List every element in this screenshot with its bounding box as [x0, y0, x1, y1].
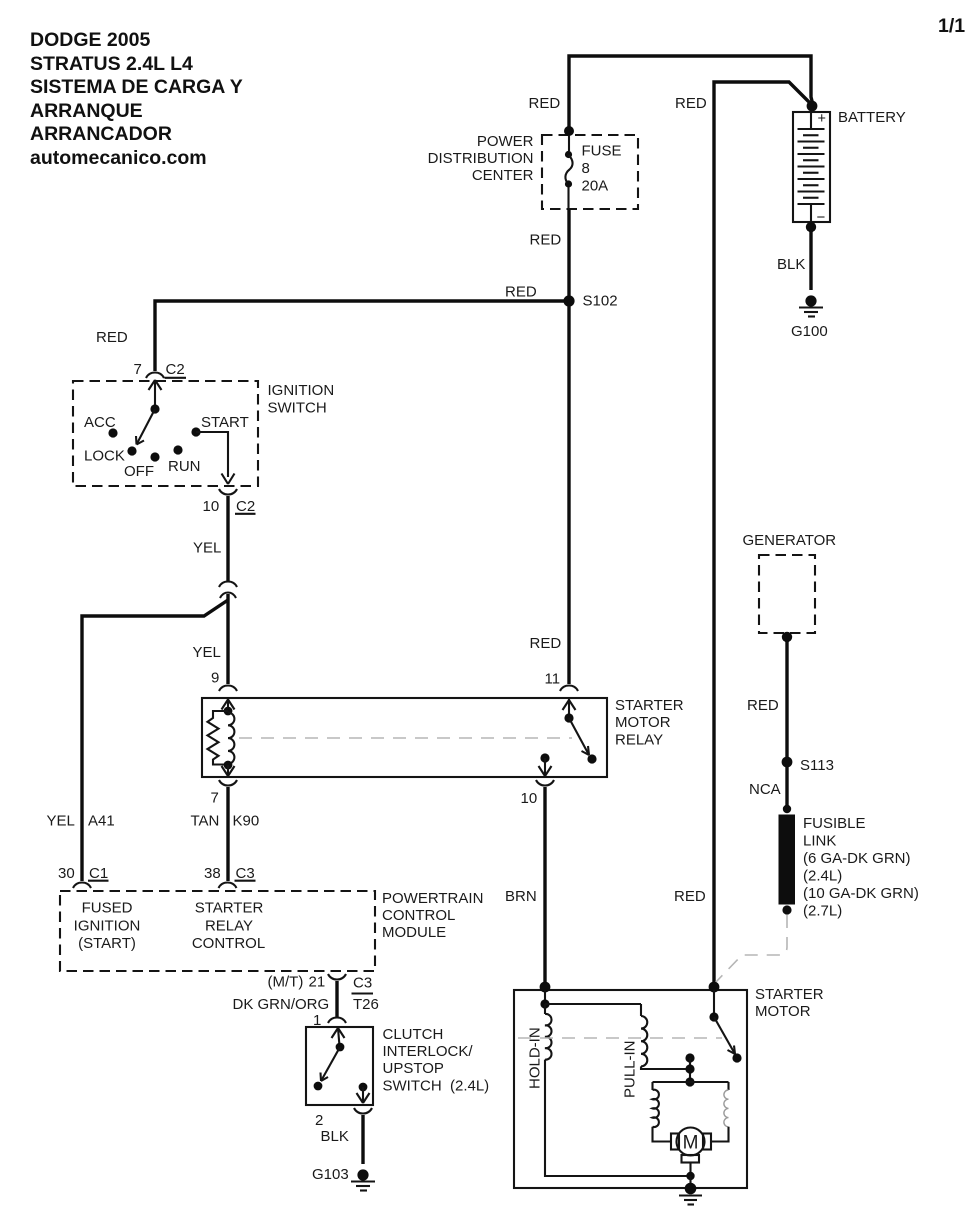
svg-text:BLK: BLK: [777, 256, 805, 273]
wire hold-in return: [545, 1060, 691, 1176]
node BRN at starter box: [540, 982, 551, 993]
wire RED S102 to ignition switch: [155, 301, 569, 371]
ground G103: [351, 1169, 375, 1190]
svg-text:RED: RED: [505, 284, 537, 301]
wire DK GRN/ORG PCM to clutch switch: [335, 981, 338, 1017]
solenoid mechanical dashed link: [518, 1037, 722, 1039]
node generator output: [782, 632, 792, 642]
svg-text:CONTROL: CONTROL: [382, 907, 455, 924]
clutch switch internals: [314, 1028, 370, 1103]
label FUSE 8 20A: [582, 143, 622, 195]
svg-text:(M/T): (M/T): [268, 974, 304, 991]
svg-text:TAN: TAN: [191, 813, 220, 830]
inline connector (two arcs): [219, 582, 237, 599]
svg-text:INTERLOCK/: INTERLOCK/: [383, 1043, 474, 1060]
svg-text:C3: C3: [353, 975, 372, 992]
connector PCM pin 30 (female arc): [73, 883, 91, 889]
svg-text:C2: C2: [166, 361, 185, 378]
wire: top RED feed from battery to fuse: [569, 56, 813, 132]
powertrain control module box: [60, 891, 375, 971]
svg-text:FUSIBLE: FUSIBLE: [803, 815, 866, 832]
svg-text:38: 38: [204, 865, 221, 882]
svg-text:YEL: YEL: [47, 813, 75, 830]
wire: RED battery positive to starter motor: [714, 82, 813, 988]
label IGNITION SWITCH: [268, 382, 335, 417]
label STARTER MOTOR RELAY: [615, 697, 684, 749]
svg-text:STARTER: STARTER: [615, 697, 684, 714]
svg-text:(2.7L): (2.7L): [803, 903, 842, 920]
wire RED generator to S113: [785, 640, 788, 762]
connector PCM pin 38 (female arc): [219, 883, 237, 889]
svg-text:CENTER: CENTER: [472, 167, 534, 184]
svg-text:RED: RED: [674, 888, 706, 905]
svg-text:STRATUS 2.4L L4: STRATUS 2.4L L4: [30, 53, 193, 75]
label CLUTCH INTERLOCK/ UPSTOP SWITCH (2.4L): [383, 1026, 490, 1095]
svg-text:C3: C3: [236, 865, 255, 882]
relay mechanical dashed link: [239, 737, 572, 739]
svg-text:(10 GA-DK GRN): (10 GA-DK GRN): [803, 885, 919, 902]
label STARTER RELAY CONTROL: [192, 900, 265, 953]
connector clutch pin 1 (female arc): [328, 1018, 346, 1024]
wire YEL branch to PCM pin 30: [82, 600, 228, 881]
svg-text:20A: 20A: [582, 178, 609, 195]
fuse F8 20A: [564, 126, 574, 209]
node battery positive: [807, 101, 818, 112]
svg-text:ARRANQUE: ARRANQUE: [30, 100, 143, 122]
connector C2 pin 10 (female arc): [219, 489, 237, 495]
svg-text:2: 2: [315, 1112, 323, 1129]
svg-text:9: 9: [211, 670, 219, 687]
svg-text:RUN: RUN: [168, 458, 201, 475]
motor armature loop: [653, 1082, 729, 1142]
label pin 38 C3: [204, 865, 256, 882]
label pin 7 C2: [134, 361, 187, 378]
connector clutch pin 2 (female arc): [354, 1108, 372, 1114]
connector relay pin 10 (female arc): [536, 780, 554, 786]
svg-text:+: +: [818, 111, 826, 127]
label POWERTRAIN CONTROL MODULE: [382, 890, 483, 941]
node S113: [782, 757, 793, 768]
svg-text:DK GRN/ORG: DK GRN/ORG: [233, 996, 330, 1013]
ignition switch box: [73, 381, 258, 486]
label pin 10 C2: [203, 498, 256, 515]
wire BLK clutch to ground: [361, 1115, 364, 1164]
svg-text:SWITCH: SWITCH: [268, 400, 327, 417]
svg-text:C2: C2: [236, 498, 255, 515]
wire BRN relay pin 10 to starter motor: [543, 787, 546, 988]
relay coil (resistor + inductor): [208, 699, 235, 776]
wire YEL splice down to relay pin 9: [226, 594, 229, 684]
relay switch: [539, 699, 597, 776]
ground G100: [791, 295, 828, 340]
motor M: [671, 1128, 711, 1177]
svg-text:UPSTOP: UPSTOP: [383, 1060, 444, 1077]
svg-text:HOLD-IN: HOLD-IN: [527, 1027, 544, 1089]
svg-text:SWITCH (2.4L): SWITCH (2.4L): [383, 1078, 490, 1095]
title block: [30, 29, 243, 169]
svg-text:7: 7: [211, 790, 219, 807]
svg-text:LOCK: LOCK: [84, 448, 125, 465]
connector relay pin 7 (female arc): [219, 780, 237, 786]
wire RED fuse to S102: [567, 209, 570, 301]
solenoid contact node stack: [685, 1053, 694, 1086]
ground starter case: [679, 1183, 702, 1205]
svg-text:8: 8: [582, 160, 590, 177]
node fusible link bottom: [782, 905, 791, 914]
solenoid switch: [709, 990, 741, 1063]
svg-text:STARTER: STARTER: [195, 900, 264, 917]
svg-text:SISTEMA DE CARGA Y: SISTEMA DE CARGA Y: [30, 76, 243, 98]
hold-in coil: [545, 1014, 552, 1060]
svg-text:START: START: [201, 414, 249, 431]
node S102: [563, 295, 574, 306]
svg-text:RED: RED: [530, 232, 562, 249]
node battery negative: [806, 222, 816, 232]
svg-text:MODULE: MODULE: [382, 924, 446, 941]
label (M/T) 21 C3 T26: [233, 974, 379, 1014]
label FUSIBLE LINK values: [803, 815, 919, 920]
svg-text:POWER: POWER: [477, 133, 534, 150]
ignition switch internals: [84, 380, 249, 484]
svg-text:(START): (START): [78, 935, 136, 952]
label YEL A41: [47, 813, 115, 830]
label FUSED IGNITION (START): [74, 900, 141, 953]
svg-text:11: 11: [545, 671, 561, 688]
svg-text:BLK: BLK: [321, 1128, 349, 1145]
node motor return: [686, 1172, 694, 1180]
connector PCM pin 21 (female arc below box): [328, 974, 346, 980]
svg-text:IGNITION: IGNITION: [268, 382, 335, 399]
label POWER DISTRIBUTION CENTER: [428, 133, 534, 184]
svg-text:OFF: OFF: [124, 463, 154, 480]
svg-text:YEL: YEL: [193, 540, 221, 557]
generator box: [759, 555, 815, 633]
svg-text:automecanico.com: automecanico.com: [30, 147, 207, 169]
svg-text:DODGE 2005: DODGE 2005: [30, 29, 150, 51]
svg-text:G100: G100: [791, 323, 828, 340]
svg-text:7: 7: [134, 361, 142, 378]
svg-text:(2.4L): (2.4L): [803, 868, 842, 885]
svg-text:RELAY: RELAY: [205, 918, 253, 935]
svg-text:21: 21: [309, 974, 326, 991]
svg-text:(6 GA-DK GRN): (6 GA-DK GRN): [803, 850, 911, 867]
starter motor relay box: [202, 698, 607, 777]
svg-text:ARRANCADOR: ARRANCADOR: [30, 123, 172, 145]
pull-in coil: [641, 1004, 690, 1069]
svg-text:1/1: 1/1: [938, 15, 965, 37]
wire RED S102 to relay pin 11: [567, 301, 570, 684]
svg-text:RELAY: RELAY: [615, 732, 663, 749]
svg-text:DISTRIBUTION: DISTRIBUTION: [428, 150, 534, 167]
svg-text:PULL-IN: PULL-IN: [622, 1040, 639, 1098]
svg-text:A41: A41: [88, 813, 115, 830]
wire NCA S113 to fusible link: [785, 762, 788, 808]
wire BLK battery to ground: [809, 230, 812, 290]
svg-text:M: M: [683, 1133, 699, 1154]
svg-text:CONTROL: CONTROL: [192, 935, 265, 952]
label STARTER MOTOR: [755, 986, 824, 1020]
svg-text:T26: T26: [353, 996, 379, 1013]
svg-text:G103: G103: [312, 1166, 349, 1183]
svg-text:RED: RED: [747, 697, 779, 714]
battery B1: [793, 111, 830, 226]
wire TAN relay pin 7 to PCM pin 38: [226, 787, 229, 881]
svg-text:CLUTCH: CLUTCH: [383, 1026, 444, 1043]
node RED at starter box: [709, 982, 720, 993]
svg-text:FUSED: FUSED: [82, 900, 133, 917]
svg-text:IGNITION: IGNITION: [74, 918, 141, 935]
connector C2 pin 7 (female arc): [146, 373, 164, 379]
dashed link fusible link to starter stud: [715, 915, 787, 983]
label pin 30 C1: [58, 865, 109, 882]
svg-text:POWERTRAIN: POWERTRAIN: [382, 890, 483, 907]
svg-text:30: 30: [58, 865, 75, 882]
wire YEL ignition to splice: [226, 496, 229, 581]
svg-text:LINK: LINK: [803, 833, 836, 850]
svg-text:RED: RED: [675, 95, 707, 112]
node fusible link top: [783, 805, 791, 813]
clutch interlock switch box: [306, 1027, 373, 1105]
svg-text:S113: S113: [800, 757, 834, 774]
wire to case ground: [689, 1176, 691, 1188]
connector relay pin 11 (female arc): [560, 686, 578, 692]
starter internal wiring left: [540, 990, 641, 1014]
svg-text:K90: K90: [233, 813, 260, 830]
svg-text:BATTERY: BATTERY: [838, 109, 906, 126]
svg-text:NCA: NCA: [749, 781, 781, 798]
svg-text:YEL: YEL: [193, 644, 221, 661]
svg-text:RED: RED: [96, 329, 128, 346]
svg-text:S102: S102: [583, 293, 618, 310]
starter motor box: [514, 990, 747, 1188]
svg-text:10: 10: [203, 498, 220, 515]
svg-text:GENERATOR: GENERATOR: [743, 532, 837, 549]
fusible link: [779, 815, 796, 905]
svg-text:C1: C1: [89, 865, 108, 882]
power distribution center box: [542, 135, 638, 209]
label TAN K90: [191, 813, 260, 830]
svg-text:BRN: BRN: [505, 888, 537, 905]
svg-text:10: 10: [521, 790, 538, 807]
svg-text:MOTOR: MOTOR: [615, 714, 671, 731]
svg-text:−: −: [817, 209, 826, 226]
svg-text:FUSE: FUSE: [582, 143, 622, 160]
svg-text:STARTER: STARTER: [755, 986, 824, 1003]
svg-text:MOTOR: MOTOR: [755, 1003, 811, 1020]
svg-text:ACC: ACC: [84, 414, 116, 431]
connector relay pin 9 (female arc): [219, 686, 237, 692]
svg-text:RED: RED: [530, 635, 562, 652]
svg-text:RED: RED: [529, 95, 561, 112]
